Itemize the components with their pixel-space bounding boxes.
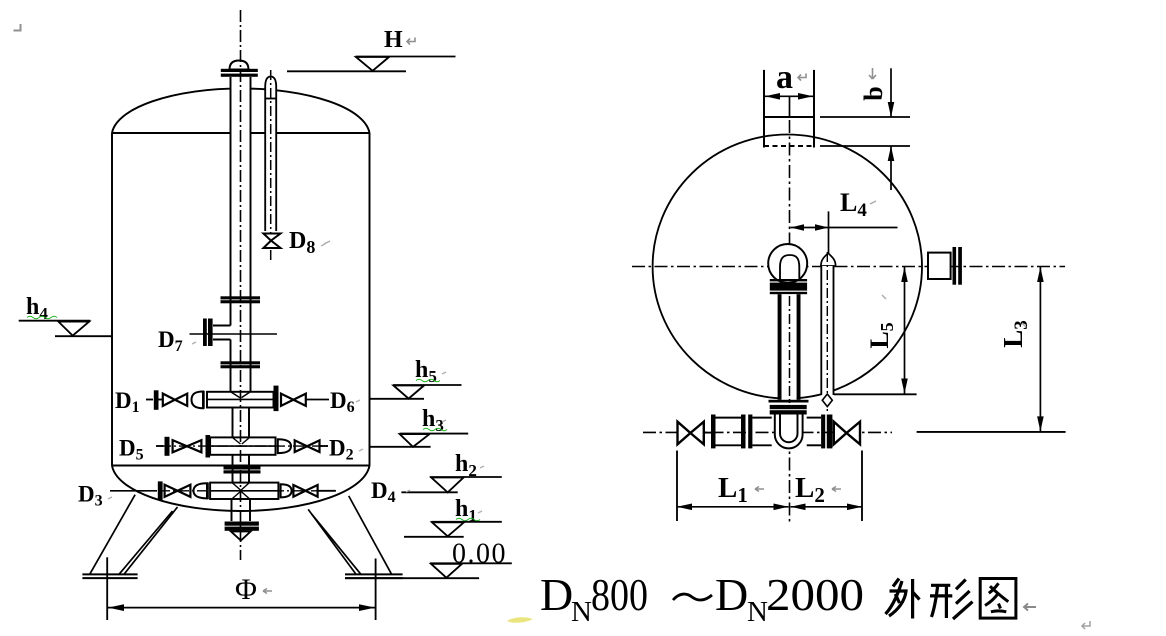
caption CJK tu [980, 579, 1016, 619]
U-bend flange bars [770, 405, 807, 415]
bottom right bowtie valve [834, 422, 860, 445]
gray pilcrow bottom right [1082, 621, 1090, 629]
level h5 symbol [393, 385, 462, 399]
left leg [90, 495, 178, 575]
level H symbol [287, 57, 456, 72]
svg-text:a: a [776, 59, 793, 96]
row3 leader line [110, 490, 157, 492]
phi extension line right [375, 559, 377, 621]
row3 left cap [194, 483, 208, 500]
gray arrow after caption [1024, 604, 1036, 611]
valve D1 bowtie [163, 394, 187, 406]
pipe between row1 and row2 [233, 408, 250, 438]
valve D4 bowtie [293, 485, 317, 497]
row1 left cap [192, 391, 204, 409]
row2 right cap [278, 439, 291, 453]
horizontal centerline [632, 266, 1065, 268]
row1 right leader [306, 399, 329, 401]
nozzle D7 leader line [190, 333, 278, 335]
row1 left flange bar [154, 390, 159, 410]
row1 tee body [207, 392, 274, 408]
central pipe [231, 77, 251, 393]
dim L4 [791, 211, 898, 258]
right foot [345, 574, 403, 578]
phi extension line left [106, 557, 108, 620]
bottom flange bar 2 [741, 415, 746, 449]
row1 right flange bar [274, 386, 279, 412]
right leg [308, 496, 391, 574]
level h3 squiggle [423, 428, 447, 431]
svg-text:2000: 2000 [766, 569, 864, 620]
left foot [82, 574, 137, 578]
central pipe upper flange pair [221, 296, 261, 303]
pipe between row2 and row3 [233, 455, 250, 483]
level h1 squiggle [456, 518, 480, 521]
gauge pipe D8 [265, 77, 276, 232]
caption tilde [673, 594, 712, 600]
yellow smudge [507, 617, 533, 622]
row2 tee left flange bar [206, 435, 211, 458]
row2 leader dash [156, 445, 164, 447]
caption CJK wai [886, 579, 920, 619]
level 0.00 symbol [430, 563, 512, 577]
level h4 squiggle [27, 316, 57, 319]
vertical centerline [789, 120, 791, 524]
row3 right leader [318, 490, 336, 492]
L1/L2 extension lines [677, 451, 862, 522]
bottom pipe box 2 [752, 418, 771, 446]
tank vertical centerline [240, 10, 242, 560]
central pipe top cap [230, 61, 249, 70]
bottom funnel [231, 532, 251, 541]
svg-text:b: b [859, 86, 888, 100]
row1 exit line (h5 lower) [370, 398, 425, 400]
D4 leader line (h2 lower) [401, 491, 457, 493]
right nozzle [928, 247, 962, 285]
row2 exit line (h3 lower) [370, 446, 431, 448]
dim a arrows [764, 93, 814, 117]
central pipe top flange [221, 69, 258, 77]
siphon circle [768, 244, 807, 283]
gauge D8 centerline [270, 70, 272, 262]
ground line [345, 577, 479, 579]
L3 reference line [917, 431, 1066, 433]
row2 right leader dash [321, 445, 329, 447]
bottom drop pipe [232, 499, 251, 521]
level h3 symbol [400, 434, 469, 447]
valve D8 [263, 234, 280, 249]
gray mark after L3 [1022, 323, 1026, 327]
dim L5 [901, 267, 908, 395]
row1 leader dash [146, 399, 153, 401]
svg-text:Φ: Φ [235, 573, 257, 606]
bottom left bowtie valve [678, 422, 704, 445]
nozzle D7 branch [213, 326, 231, 340]
gray arrow after L1 [755, 487, 764, 492]
svg-text:800: 800 [591, 569, 648, 620]
level h2 symbol [430, 477, 502, 492]
manhole [764, 70, 814, 148]
dim L3 [1037, 267, 1044, 432]
caption CJK xing [930, 580, 973, 620]
valve D3 bowtie [165, 485, 191, 497]
L5 reference line [834, 393, 917, 395]
svg-text:N: N [571, 596, 592, 628]
svg-text:N: N [747, 596, 768, 628]
gray mark after L4 [870, 201, 876, 204]
level gauge pipe (top view) [821, 252, 836, 412]
dim b [888, 68, 895, 190]
U-bend [775, 415, 803, 449]
dim L1 [677, 504, 789, 511]
bottom flange bar 4 [821, 415, 825, 449]
gray arrow after L2 [832, 487, 841, 492]
row2 centerline dashdot [160, 445, 330, 447]
circle shell [653, 135, 922, 399]
row3 right cap [281, 484, 292, 497]
gray mark after D8 [324, 241, 330, 244]
tank shell [112, 88, 370, 511]
row1 left stub [159, 399, 164, 401]
phi dimension line [108, 604, 375, 611]
row3 left flange bar [158, 481, 163, 500]
bottom tangent flange pair [224, 466, 261, 473]
gray down-arrow above b [869, 68, 876, 79]
bottom pipe flange [225, 522, 259, 531]
gray pilcrow after a [798, 74, 806, 81]
central pipe lower flange pair [221, 361, 261, 368]
row3 centerline dashdot [140, 490, 336, 492]
valve D2 bowtie [295, 440, 320, 452]
level h1 symbol [404, 522, 502, 537]
gray corner mark top-left [14, 24, 21, 31]
row3 cross body [210, 483, 278, 499]
drop pipe centerline [789, 296, 791, 404]
svg-text:D: D [540, 569, 573, 620]
bottom left stub [704, 432, 711, 434]
bottom flange bar 1 [711, 415, 716, 449]
small gray label ticks [108, 244, 484, 513]
bottom pipe box 1 [716, 418, 742, 446]
gray mark after L5 [882, 295, 886, 299]
svg-text:D: D [715, 569, 748, 620]
bottom flange bar 3 [748, 415, 752, 449]
gray pilcrow after H [407, 38, 415, 45]
level h4 symbol [19, 321, 112, 337]
row2 left flange bar [165, 437, 170, 456]
bottom pipe box 3 [807, 418, 821, 446]
nozzle D7 flange [203, 319, 213, 347]
row2 tee body [210, 437, 275, 454]
siphon flange [770, 279, 807, 294]
drop pipe [778, 294, 801, 400]
svg-text:H: H [384, 27, 403, 53]
bottom assembly centerline [643, 431, 892, 433]
dim L2 [791, 504, 863, 511]
valve D5 bowtie [173, 440, 202, 452]
manhole extension lines [820, 117, 910, 146]
drop pipe bottom flange thin bar [769, 400, 809, 403]
gray arrow after phi [263, 589, 272, 594]
level h5 squiggle [416, 379, 440, 382]
valve D6 bowtie [281, 394, 306, 406]
bottom flange bar 5 [827, 415, 833, 449]
siphon inner dome [780, 255, 799, 281]
